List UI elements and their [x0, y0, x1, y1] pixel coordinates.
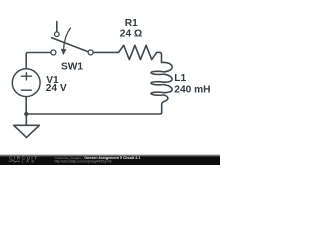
wire switch top stub	[56, 22, 58, 32]
switch SW1 top throw circle	[55, 32, 60, 37]
svg-text:L1: L1	[174, 73, 186, 84]
svg-text:24 V: 24 V	[46, 83, 67, 94]
switch SW1 right terminal circle	[88, 50, 93, 55]
svg-text:SW1: SW1	[61, 61, 83, 72]
wire resistor to inductor top	[157, 52, 162, 62]
svg-text:LAB: LAB	[22, 160, 37, 164]
node junction dot	[24, 112, 28, 116]
wire switch to resistor	[93, 51, 118, 53]
circuitlab logo	[9, 155, 39, 163]
wire V1 bottom stub	[25, 97, 27, 114]
voltage source V1 circle	[12, 69, 40, 97]
switch SW1 left terminal circle	[51, 50, 56, 55]
V1 plus sign	[21, 73, 31, 80]
V1 minus sign	[21, 89, 31, 91]
svg-text:http://circuitlab.com/c/qbday4: http://circuitlab.com/c/qbday4955q7ob	[55, 160, 112, 164]
switch SW1 arrowhead	[61, 49, 66, 55]
wire V1 top to switch left terminal	[26, 53, 51, 69]
switch SW1 actuation arc	[64, 28, 71, 49]
ground	[14, 125, 40, 137]
svg-text:R1: R1	[125, 18, 138, 29]
labels	[46, 18, 211, 96]
svg-text:240 mH: 240 mH	[174, 85, 210, 96]
svg-text:24 Ω: 24 Ω	[120, 29, 142, 40]
wire inductor bottom to bottom rail	[26, 104, 161, 114]
resistor R1	[119, 45, 157, 59]
inductor L1 coil	[151, 62, 172, 104]
wire to ground	[25, 114, 27, 125]
switch SW1 blade	[52, 38, 89, 52]
watermark bar	[0, 154, 220, 157]
